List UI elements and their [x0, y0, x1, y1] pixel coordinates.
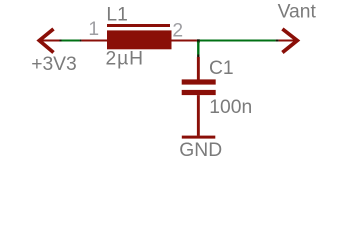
- svg-text:100n: 100n: [209, 97, 252, 118]
- svg-text:GND: GND: [179, 140, 222, 161]
- inductor L1 top bar: [107, 24, 170, 27]
- capacitor C1 top lead: [197, 57, 200, 80]
- junction node: [197, 39, 200, 42]
- wire overlap at Vant arrow pin: [276, 40, 279, 42]
- wire net right segment: [200, 40, 276, 42]
- port arrow Vant: [282, 29, 297, 53]
- svg-text:Vant: Vant: [278, 1, 317, 22]
- capacitor C1 bottom lead: [197, 95, 200, 136]
- wire +3V3 pin stub: [40, 40, 60, 42]
- wire vertical net to C1: [197, 42, 199, 55]
- svg-text:1: 1: [88, 19, 99, 40]
- svg-text:C1: C1: [209, 58, 234, 79]
- inductor L1 pin 1 stub: [82, 40, 107, 42]
- inductor L1 body: [107, 30, 172, 49]
- wire overlap left of net: [60, 40, 62, 42]
- inductor L1 pin 2 stub: [171, 40, 197, 42]
- wire Vant arrow pin stub: [279, 40, 298, 42]
- wire overlap on C1 pin: [197, 55, 199, 58]
- wire net left segment: [62, 40, 80, 42]
- capacitor C1 top plate: [182, 79, 216, 84]
- svg-text:L1: L1: [106, 5, 127, 26]
- svg-text:2µH: 2µH: [106, 49, 144, 70]
- wire overlap at L1 pin 1: [80, 40, 82, 42]
- svg-text:2: 2: [172, 20, 183, 41]
- supply arrow +3V3: [39, 29, 53, 53]
- ground symbol bar: [182, 136, 216, 139]
- capacitor C1 bottom plate: [182, 90, 216, 95]
- svg-text:+3V3: +3V3: [31, 54, 77, 75]
